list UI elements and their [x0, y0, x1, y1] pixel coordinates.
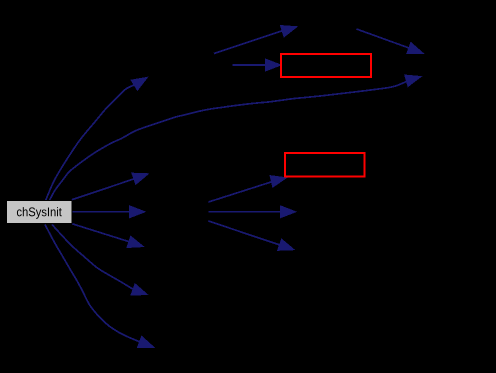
- edge chSysInit to node D: [72, 179, 134, 200]
- arrowhead sweep into node C: [405, 72, 421, 86]
- edge chSysInit to node H: [45, 225, 141, 343]
- edge chSysInit to node A: [46, 85, 136, 201]
- arrowhead into node I: [281, 206, 295, 217]
- arrowhead into node A: [132, 73, 150, 89]
- edge chSysInit to node E: [73, 211, 132, 213]
- edge node E to red box 2: [209, 182, 273, 202]
- arrowhead into node G: [131, 284, 148, 299]
- arrowhead into red box 2: [271, 173, 287, 187]
- edge node A to node B: [214, 31, 283, 54]
- arrowhead into node B: [281, 22, 298, 36]
- arrowhead into node J: [278, 240, 295, 255]
- arrowhead B into node C: [407, 43, 424, 58]
- arrowhead into node E: [130, 206, 144, 217]
- arrowhead into node D: [132, 169, 149, 184]
- red box 1: [281, 54, 371, 77]
- arrowhead into node F: [128, 237, 145, 252]
- arrowhead into node H: [138, 337, 155, 352]
- edge chSysInit to node F: [72, 224, 130, 242]
- edge node E to node I: [209, 211, 282, 213]
- edge node A to red box 1: [233, 64, 268, 66]
- node chSysInit: [7, 201, 73, 224]
- edge chSysInit to node G: [52, 225, 134, 290]
- edge node B to node C: [357, 29, 410, 48]
- arrowhead into red box 1: [266, 60, 280, 71]
- edge chSysInit long sweep to node C: [49, 81, 407, 201]
- red box 2: [285, 153, 365, 176]
- edge node E to node J: [209, 221, 280, 245]
